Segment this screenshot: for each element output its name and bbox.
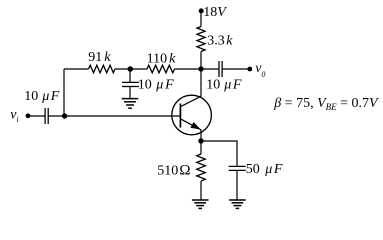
ground emitter bypass xyxy=(229,200,246,208)
node input junction xyxy=(62,113,67,118)
wire collector node to output cap xyxy=(201,68,218,70)
wire 510 to ground xyxy=(200,181,202,200)
node vo terminal dot xyxy=(247,67,252,72)
wire bypass cap to ground xyxy=(129,87,131,99)
transistor Q1 base bar xyxy=(179,104,181,128)
svg-text:91k: 91k xyxy=(88,50,111,65)
wire 110k to collector node xyxy=(175,68,202,70)
svg-text:110k: 110k xyxy=(147,52,176,67)
transistor Q1 circle xyxy=(172,95,212,135)
svg-text:3.3k: 3.3k xyxy=(207,34,233,49)
wire emitter to bypass branch xyxy=(201,141,237,166)
wire 91k to bias node xyxy=(115,68,147,70)
wire output cap to vo xyxy=(223,68,250,70)
wire R 3.3k to collector node xyxy=(200,52,202,70)
capacitor C bypass 10uF xyxy=(122,82,139,86)
capacitor C emitter 50uF xyxy=(229,166,246,170)
capacitor C input 10uF xyxy=(45,108,48,124)
ground emitter resistor xyxy=(192,200,209,208)
transistor Q1 emitter arrow xyxy=(190,122,200,130)
node VCC supply dot xyxy=(199,8,204,13)
wire input cap to base xyxy=(49,115,181,117)
wire bias line left segment xyxy=(64,68,89,70)
wire vi to input cap xyxy=(28,115,45,117)
node vi terminal dot xyxy=(26,113,31,118)
svg-text:10 μF: 10 μF xyxy=(138,77,174,92)
ground bias bypass xyxy=(122,99,139,109)
wire bias node to bypass cap xyxy=(129,69,131,82)
transistor Q1 emitter lead xyxy=(180,119,201,141)
node emitter junction xyxy=(198,138,203,143)
wire emitter to 510 resistor xyxy=(200,141,202,154)
wire left branch vertical xyxy=(63,69,65,116)
wire supply to R 3.3k xyxy=(200,11,202,27)
resistor 510 ohm xyxy=(197,154,206,181)
svg-text:10 μF: 10 μF xyxy=(24,89,60,104)
resistor 110k xyxy=(147,65,175,73)
node collector junction xyxy=(198,66,203,71)
capacitor C output 10uF xyxy=(219,61,222,77)
svg-text:510Ω: 510Ω xyxy=(157,163,190,179)
svg-text:50 μF: 50 μF xyxy=(246,162,283,177)
transistor Q1 collector lead xyxy=(180,69,201,107)
svg-text:10 μF: 10 μF xyxy=(206,77,242,92)
svg-text:18V: 18V xyxy=(203,5,227,20)
resistor 3.3k xyxy=(197,27,205,52)
wire 50uF cap to ground xyxy=(236,170,238,200)
node bias junction xyxy=(128,66,134,72)
resistor 91k xyxy=(89,65,116,73)
